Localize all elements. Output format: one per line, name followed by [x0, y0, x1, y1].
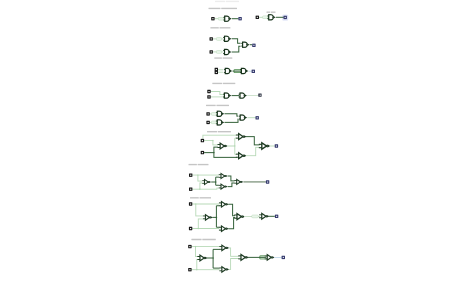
NAND gate U6 — [224, 68, 232, 73]
input pin B — [188, 268, 191, 271]
junction A — [197, 174, 198, 175]
wire B branch to U27 mid gate — [197, 260, 200, 270]
NAND gate U23 top — [219, 202, 229, 208]
wire U8 to U9 — [232, 95, 239, 97]
NAND gate U22 mid — [203, 215, 213, 221]
input pin — [256, 16, 259, 19]
output pin Q — [238, 17, 241, 20]
circuit 8 title: XNOR gate using NAND — [190, 197, 199, 198]
wire label pill — [263, 16, 268, 19]
junction A — [195, 246, 196, 247]
NAND gate U17 out — [259, 143, 271, 150]
wire U29 out to U30 — [229, 259, 239, 270]
wire input A to gate U3 — [213, 38, 223, 40]
junction mid out — [215, 181, 217, 183]
NAND gate U16 bottom — [236, 153, 247, 159]
wire U28 out to U30 — [229, 248, 239, 256]
NAND gate U2 — [267, 15, 275, 20]
wire label pill B — [211, 121, 216, 124]
NAND gate U29 bottom — [219, 267, 229, 273]
junction A — [212, 140, 213, 141]
wire A branch to U27 mid gate — [196, 247, 200, 257]
input pin B — [207, 95, 210, 98]
junction mid out — [212, 257, 214, 259]
circuit 1 title: NOT gate using NAND — [209, 8, 221, 9]
NAND gate U25 — [234, 214, 245, 220]
wire U13 out branch to U15/U16 — [227, 138, 237, 154]
input pin B — [201, 151, 204, 154]
junction B — [213, 152, 215, 154]
NAND gate U10 — [216, 111, 224, 116]
wire U10 out to U12 — [225, 114, 239, 116]
junction B — [196, 269, 197, 270]
NAND gate U24 bottom — [219, 226, 229, 232]
wire B branch to U18 mid gate — [200, 183, 202, 189]
input pin A — [189, 174, 192, 177]
output pin — [266, 180, 269, 183]
NAND gate U7 — [240, 68, 248, 73]
wire U3 out to U5 — [232, 39, 241, 43]
wire U26 to output — [269, 215, 275, 217]
wire U9 to output — [247, 94, 258, 96]
output pin — [258, 94, 261, 97]
wire label pill A — [211, 113, 216, 116]
wire label pill (value 0) — [218, 17, 223, 20]
wire U1 to output — [232, 18, 238, 20]
NAND gate U9 — [239, 93, 247, 98]
circuit 5 title: NOR gate using NAND — [206, 105, 216, 106]
wire input to gate U2 — [259, 16, 267, 18]
input pin A — [215, 68, 218, 71]
wire A to U23 top gate — [192, 203, 219, 205]
wire input B to U6 — [218, 71, 223, 73]
input pin A — [206, 112, 209, 115]
NAND gate U8 — [223, 93, 231, 98]
input pin A — [211, 17, 214, 20]
junction A — [195, 203, 196, 204]
wire U21 to output (long) — [243, 181, 266, 183]
input pin A — [207, 90, 210, 93]
wire U19 out to U21 — [228, 176, 235, 181]
NAND gate U15 top — [236, 134, 247, 140]
NAND gate U20 bottom — [219, 184, 228, 189]
input pin B — [206, 121, 209, 124]
NAND gate U11 — [216, 120, 224, 125]
wire U7 to output — [249, 70, 252, 72]
wire A to U19 top gate — [192, 174, 218, 176]
input pin B — [215, 71, 218, 74]
wire B down to U16 bottom gate — [214, 153, 237, 158]
input pin B — [189, 188, 192, 191]
wire U17 to output — [270, 145, 275, 147]
wire input B to gate U4 — [213, 51, 223, 53]
wire U25 to U26 with label pill — [244, 216, 260, 218]
input pin A — [189, 202, 192, 205]
wire U27 out branch to U28/U29 — [207, 249, 220, 268]
NAND gate U18 mid — [202, 180, 211, 185]
page title text — [215, 1, 225, 2]
wire U5 to output — [250, 44, 252, 46]
NAND gate U28 top — [219, 245, 229, 251]
wire A branch to U22 mid gate — [196, 204, 203, 216]
circuit 7 title: XOR gate using NAND v2 — [189, 164, 197, 165]
output pin — [252, 44, 255, 47]
NAND gate U5 — [241, 42, 249, 47]
input pin A — [188, 245, 191, 248]
wire U20 out to U21 — [228, 183, 235, 187]
wire U24 out to U25 — [228, 218, 235, 229]
wire U4 out to U5 — [232, 46, 241, 52]
wire U31 to output — [274, 256, 282, 258]
wire B to U20 bottom gate — [192, 188, 218, 189]
wire label pill B — [216, 51, 221, 54]
wire B to U24 bottom gate — [192, 228, 219, 230]
junction B — [199, 189, 200, 190]
wire input B to U8 — [211, 96, 223, 98]
output pin — [284, 16, 287, 19]
input pin A — [201, 139, 204, 142]
circuit 4 title: AND gate using NAND v2 — [212, 83, 222, 84]
wire U23 out to U25 — [228, 204, 235, 215]
wire label pill (green) — [260, 256, 267, 259]
NAND gate U31 inverter — [265, 255, 275, 261]
NAND gate U21 out — [234, 179, 243, 184]
circuit 1b title: NOT gate — [267, 12, 271, 13]
wire label pill (green) — [234, 70, 241, 73]
output pin — [256, 116, 259, 119]
NAND gate U12 — [239, 115, 247, 120]
input pin A — [210, 37, 213, 40]
wire U16 out to U17 — [246, 147, 260, 155]
junction mid out — [216, 217, 218, 219]
wire input A to gate U1 — [214, 18, 222, 20]
wire input A to U8 — [211, 92, 223, 95]
selection halo behind output pin — [282, 15, 288, 21]
wire U22 out branch to U23/U24 — [212, 206, 219, 227]
NAND gate U13 mid — [218, 143, 228, 149]
circuit 3 title: AND gate using NAND — [214, 57, 222, 58]
NAND gate U30 — [238, 254, 249, 260]
NAND gate U3 — [223, 36, 231, 41]
wire input A to U6 — [218, 69, 223, 71]
output pin — [282, 256, 285, 259]
input pin B — [210, 50, 213, 53]
circuit 9 title: XNOR gate using NAND v2 — [191, 239, 201, 240]
output pin — [275, 215, 278, 218]
wire U2 to output — [276, 16, 284, 18]
wire input A to U10 — [210, 113, 216, 115]
NAND gate U1 — [223, 16, 231, 21]
NAND gate U4 — [223, 49, 231, 54]
wire B to U29 bottom gate — [192, 269, 220, 271]
junction mid out — [234, 145, 235, 146]
wire A to U28 top gate — [192, 246, 220, 248]
wire U12 to output — [247, 117, 255, 119]
wire label pill — [252, 215, 258, 218]
wire input B to U11 — [210, 121, 216, 123]
circuit 2 title: OR gate using NAND — [210, 27, 218, 28]
junction B — [198, 228, 199, 229]
wire U6 to U7 — [233, 70, 242, 72]
wire U30 to U31 — [248, 256, 266, 258]
output pin — [275, 144, 278, 147]
input pin B — [189, 227, 192, 230]
wire A to U13 mid gate — [204, 141, 218, 145]
NAND gate U26 inverter — [259, 213, 269, 219]
wire label pill A — [216, 38, 221, 41]
wire U15 out to U17 — [246, 137, 260, 145]
wire B to U13 mid gate — [204, 147, 218, 153]
wire A branch to U18 mid gate — [198, 175, 202, 181]
output pin — [252, 70, 255, 73]
NAND gate U27 mid — [197, 255, 207, 261]
NAND gate U19 top — [219, 174, 228, 179]
wire U11 out to U12 — [225, 119, 239, 122]
wire A up to U15 top gate — [203, 135, 237, 140]
wire U18 out branch to U19/U20 — [211, 177, 219, 185]
wire B branch to U22 mid gate — [198, 219, 203, 229]
circuit 6 title: XOR gate using NAND — [207, 131, 217, 132]
